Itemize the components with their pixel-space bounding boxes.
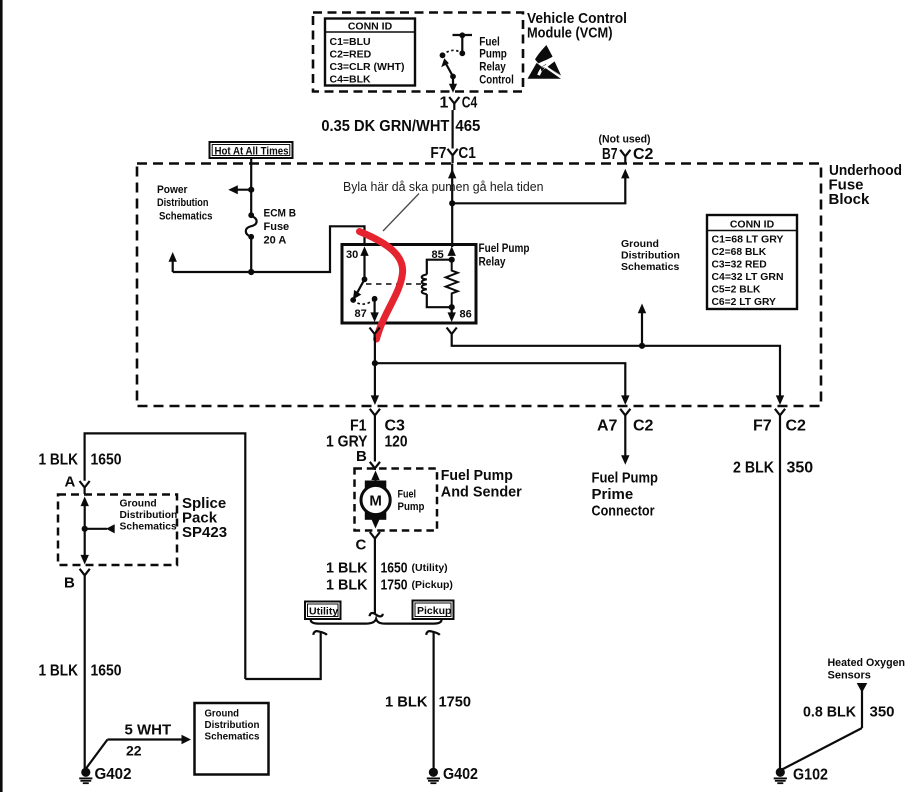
svg-text:86: 86 <box>460 309 472 321</box>
svg-text:SP423: SP423 <box>182 524 227 541</box>
svg-text:Relay: Relay <box>479 59 506 73</box>
svg-text:Fuel Pump: Fuel Pump <box>441 467 513 484</box>
svg-text:Utility: Utility <box>309 606 338 618</box>
svg-text:1650: 1650 <box>91 452 122 469</box>
svg-text:85: 85 <box>432 249 444 261</box>
connector A7/C2 labels <box>597 418 654 435</box>
connector Y at A <box>80 481 90 494</box>
connector Y at B7/C2 <box>620 150 630 163</box>
svg-text:22: 22 <box>126 743 142 759</box>
wire pickup branch down to G402 <box>433 632 435 769</box>
wire heated oxygen drop <box>861 688 863 728</box>
svg-text:(Utility): (Utility) <box>412 562 448 574</box>
connector Y below pin 87 <box>370 328 380 338</box>
svg-text:(Pickup): (Pickup) <box>412 579 453 591</box>
svg-text:F7: F7 <box>430 145 446 162</box>
fuel pump motor M <box>361 471 390 529</box>
heated oxygen sensors feed arrow <box>857 683 868 693</box>
Splice Pack SP423 label <box>182 495 227 541</box>
svg-text:Fuel Pump: Fuel Pump <box>592 470 659 487</box>
svg-text:C4=BLK: C4=BLK <box>330 74 372 86</box>
wire to B7/C2 (not used) <box>452 174 625 203</box>
connector F1/C3 labels <box>350 418 405 435</box>
Fuel Pump label (inside box) <box>398 489 425 514</box>
svg-text:Module (VCM): Module (VCM) <box>527 26 613 42</box>
svg-text:350: 350 <box>787 460 814 477</box>
connector B7/C2 labels <box>602 146 654 163</box>
svg-text:1 BLK: 1 BLK <box>385 694 428 711</box>
svg-text:2 BLK: 2 BLK <box>733 460 774 477</box>
svg-text:0.35 DK GRN/WHT: 0.35 DK GRN/WHT <box>321 118 449 135</box>
wire to A7/C2 prime connector <box>375 363 625 400</box>
relay switch dashed throw arc <box>353 300 374 305</box>
wire label 1 BLK 1750 (Pickup) <box>326 577 453 594</box>
svg-text:M: M <box>369 493 382 510</box>
wire label 5 WHT 22 <box>125 722 172 759</box>
svg-text:350: 350 <box>870 704 895 721</box>
connector Y at F7/C2 <box>775 409 785 418</box>
wire end curl at brace <box>370 613 383 616</box>
svg-text:C4: C4 <box>462 95 478 112</box>
svg-text:1750: 1750 <box>439 694 472 711</box>
ground G402 (pickup) <box>427 768 440 784</box>
svg-text:G402: G402 <box>443 766 478 783</box>
svg-text:465: 465 <box>455 118 480 135</box>
ESD sensitivity symbol <box>528 45 563 79</box>
wire pin 86 to ground run <box>452 337 780 400</box>
fuel pump relay control driver switch U1 <box>440 32 472 92</box>
wire diagonal to G102 <box>782 728 862 770</box>
wire 5 WHT horizontal with arrow <box>108 735 192 744</box>
svg-text:C1=BLU: C1=BLU <box>330 36 371 48</box>
utility branch curl <box>313 631 327 635</box>
Pickup tag box <box>413 601 454 620</box>
svg-text:C2: C2 <box>786 418 807 435</box>
wire 5 WHT branch diagonal <box>86 740 108 769</box>
svg-text:Distribution: Distribution <box>157 197 209 209</box>
svg-text:20 A: 20 A <box>264 235 287 247</box>
Fuel Pump Prime Connector label <box>592 470 659 520</box>
svg-text:C2: C2 <box>633 146 654 163</box>
svg-text:C4=32 LT GRN: C4=32 LT GRN <box>712 272 784 283</box>
svg-text:Schematics: Schematics <box>621 261 680 273</box>
svg-text:CONN ID: CONN ID <box>348 21 393 33</box>
svg-text:Connector: Connector <box>592 503 655 520</box>
wire label 2 BLK 350 <box>733 460 813 477</box>
Hot At All Times box <box>210 142 293 158</box>
CONN ID table (VCM) <box>325 19 415 86</box>
connector Y at A7/C2 <box>620 409 630 418</box>
svg-text:1 BLK: 1 BLK <box>39 452 79 469</box>
wire label 1 BLK 1650 (Utility) <box>326 560 448 577</box>
svg-text:Relay: Relay <box>479 254 506 268</box>
relay coil resistor R <box>446 260 458 311</box>
svg-text:Sensors: Sensors <box>828 670 871 682</box>
svg-text:C2=RED: C2=RED <box>330 49 372 61</box>
svg-text:30: 30 <box>346 249 358 261</box>
Power Distribution Schematics label <box>157 184 213 223</box>
Underhood Fuse Block dashed box <box>137 164 821 407</box>
wire label 1 GRY 120 <box>326 434 408 451</box>
svg-text:B: B <box>356 448 367 465</box>
power distribution reference arrow <box>228 185 251 194</box>
connector Y at C <box>370 532 380 542</box>
node junction ground distribution <box>639 343 645 349</box>
svg-text:F1: F1 <box>350 418 367 435</box>
svg-text:1 BLK: 1 BLK <box>39 663 79 680</box>
svg-text:1: 1 <box>440 95 449 112</box>
connector F7/C2 labels <box>753 418 806 435</box>
svg-text:C5=2 BLK: C5=2 BLK <box>712 285 761 296</box>
hand-drawn red mark <box>360 232 403 340</box>
wire label 0.8 BLK 350 <box>803 704 895 721</box>
Ground Distribution Schematics box (bottom) <box>195 703 269 775</box>
svg-text:B7: B7 <box>602 146 618 163</box>
splice internal wire with arrows <box>81 497 89 565</box>
fuse F1 ECM B 20A <box>246 212 257 239</box>
svg-text:C2: C2 <box>633 418 654 435</box>
svg-text:5 WHT: 5 WHT <box>125 722 172 739</box>
svg-text:Schematics: Schematics <box>159 211 213 223</box>
svg-text:1650: 1650 <box>381 560 408 577</box>
wire from Hot At All Times down <box>250 158 252 215</box>
connector Y below pin 86 <box>447 328 457 338</box>
svg-text:ECM B: ECM B <box>264 208 297 220</box>
svg-text:Distribution: Distribution <box>621 249 680 261</box>
wire VCM to fuse block (465) <box>452 110 454 149</box>
connector arrow above F7/C2 <box>776 395 784 405</box>
svg-text:C3=CLR (WHT): C3=CLR (WHT) <box>330 61 405 73</box>
relay pin 85 <box>432 246 456 261</box>
pickup branch curl <box>426 631 440 635</box>
Fuel Pump Relay label <box>479 241 530 268</box>
wire F7/C1 into block down to relay pin 85 <box>451 164 453 248</box>
wire F1/C3 to fuel pump B <box>374 418 376 462</box>
svg-text:Ground: Ground <box>120 499 157 510</box>
svg-text:120: 120 <box>385 434 408 451</box>
connector Y at B <box>370 462 380 470</box>
svg-text:C6=2 LT GRY: C6=2 LT GRY <box>712 297 777 308</box>
svg-text:C1: C1 <box>458 145 476 162</box>
svg-text:87: 87 <box>355 308 367 320</box>
svg-text:Fuel: Fuel <box>398 489 417 501</box>
connector Y below splice <box>80 569 90 578</box>
svg-text:1750: 1750 <box>381 577 408 594</box>
ECM B Fuse 20 A label <box>264 208 297 247</box>
relay pin 86 <box>448 307 472 322</box>
node junction to power distribution <box>248 187 254 193</box>
annotation pointer line <box>383 194 419 232</box>
svg-text:A: A <box>65 474 76 491</box>
svg-text:G102: G102 <box>793 767 828 784</box>
connector Y at F1/C3 <box>370 409 380 418</box>
relay coil L1 <box>422 257 455 308</box>
svg-text:Control: Control <box>479 72 514 86</box>
svg-text:A7: A7 <box>597 418 618 435</box>
node splice junction <box>82 526 88 532</box>
splice ground distribution reference arrow <box>85 524 115 533</box>
svg-text:Fuse: Fuse <box>264 221 290 233</box>
svg-text:Hot At All Times: Hot At All Times <box>215 145 289 157</box>
page left border line <box>0 0 3 792</box>
pin 1 / C4 connector labels <box>440 95 478 112</box>
svg-text:B: B <box>64 575 75 592</box>
svg-text:Pump: Pump <box>398 501 425 513</box>
splice brace <box>311 619 442 624</box>
svg-text:Distribution: Distribution <box>120 510 178 521</box>
Fuel Pump And Sender label <box>441 467 522 501</box>
connector Y at F7/C1 <box>448 149 458 163</box>
Fuel Pump Relay Control label <box>479 34 514 86</box>
svg-text:And Sender: And Sender <box>441 484 522 501</box>
svg-text:(Not used): (Not used) <box>599 133 651 145</box>
svg-text:Vehicle Control: Vehicle Control <box>527 11 627 27</box>
wire left branch with up arrow <box>169 252 252 272</box>
node junction to fuel pump prime <box>372 360 378 366</box>
relay switch blade <box>350 279 364 303</box>
svg-text:Prime: Prime <box>592 486 634 503</box>
svg-text:Pickup: Pickup <box>417 605 451 617</box>
svg-text:C1=68 LT GRY: C1=68 LT GRY <box>712 235 784 246</box>
wire C down to splice brace <box>374 542 376 614</box>
svg-text:Distribution: Distribution <box>205 719 260 731</box>
Heated Oxygen Sensors label <box>828 657 906 682</box>
svg-text:1 BLK: 1 BLK <box>326 560 368 577</box>
ground G102 <box>774 768 787 784</box>
connector arrow above A7/C2 <box>621 395 629 405</box>
VCM dashed box <box>313 13 523 92</box>
fuel pump and sender dashed box <box>355 469 438 531</box>
svg-text:Power: Power <box>157 184 188 196</box>
ground G402 (left) <box>79 768 92 784</box>
svg-text:CONN ID: CONN ID <box>730 218 775 230</box>
relay mechanical link dashed line <box>366 283 421 285</box>
svg-text:Heated Oxygen: Heated Oxygen <box>828 657 906 669</box>
svg-text:Block: Block <box>829 191 871 208</box>
svg-text:Schematics: Schematics <box>120 522 178 533</box>
svg-text:Ground: Ground <box>205 708 240 720</box>
connector arrow below B7/C2 <box>621 169 629 179</box>
node junction to B7/C2 branch <box>449 200 455 206</box>
svg-text:Fuel Pump: Fuel Pump <box>479 241 530 255</box>
Utility tag box <box>305 602 341 620</box>
svg-text:C3: C3 <box>385 418 406 435</box>
wire pin 87 down to F1/C3 <box>374 337 376 400</box>
Underhood Fuse Block label <box>829 162 903 208</box>
Ground Distribution Schematics label (splice) <box>120 499 178 533</box>
ground distribution reference arrow (up) <box>638 304 646 346</box>
connector F7/C1 labels <box>430 145 476 162</box>
wire splice to G402 <box>84 578 86 769</box>
svg-text:C2=68 BLK: C2=68 BLK <box>712 247 767 258</box>
svg-text:0.8 BLK: 0.8 BLK <box>803 704 856 721</box>
wire F7/C2 down to G102 <box>779 418 781 769</box>
wire fuse down to distribution node <box>250 237 252 272</box>
svg-text:1650: 1650 <box>91 663 122 680</box>
Ground Distribution Schematics label (fuse block) <box>621 238 680 273</box>
svg-text:Schematics: Schematics <box>205 731 260 743</box>
fuel pump relay K1 box <box>342 245 476 324</box>
svg-text:G402: G402 <box>95 766 132 783</box>
node hot feed junction <box>248 269 254 275</box>
svg-text:Byla här då ska pumen gå hela: Byla här då ska pumen gå hela tiden <box>343 180 544 194</box>
wire utility branch down and across <box>245 632 320 679</box>
connector arrow below F7/C1 <box>448 169 456 179</box>
Vehicle Control Module (VCM) label <box>527 11 627 42</box>
CONN ID table (fuse block) <box>707 215 797 309</box>
svg-text:F7: F7 <box>753 418 772 435</box>
wire right branch stepping up to relay pin 30 <box>251 226 364 272</box>
wire utility loop up and left to splice feed <box>85 433 246 679</box>
wire label 1 BLK 1650 (lower left) <box>39 663 122 680</box>
svg-text:1 BLK: 1 BLK <box>326 577 368 594</box>
wire A7 stub with down arrow <box>621 418 629 465</box>
svg-text:C: C <box>356 537 367 554</box>
wire label 1 BLK 1750 (pickup drop) <box>385 694 471 711</box>
splice pack SP423 dashed box <box>58 495 177 566</box>
relay pin 87 <box>355 296 379 322</box>
wire label 0.35 DK GRN/WHT 465 <box>321 118 480 135</box>
svg-text:Ground: Ground <box>621 238 659 250</box>
svg-text:C3=32 RED: C3=32 RED <box>712 260 767 271</box>
connector arrow above F1/C3 <box>371 395 379 405</box>
relay pin 30 <box>346 246 369 282</box>
connector Y at 1/C4 <box>449 97 459 110</box>
wire label 1 BLK 1650 (top left) <box>39 452 122 469</box>
